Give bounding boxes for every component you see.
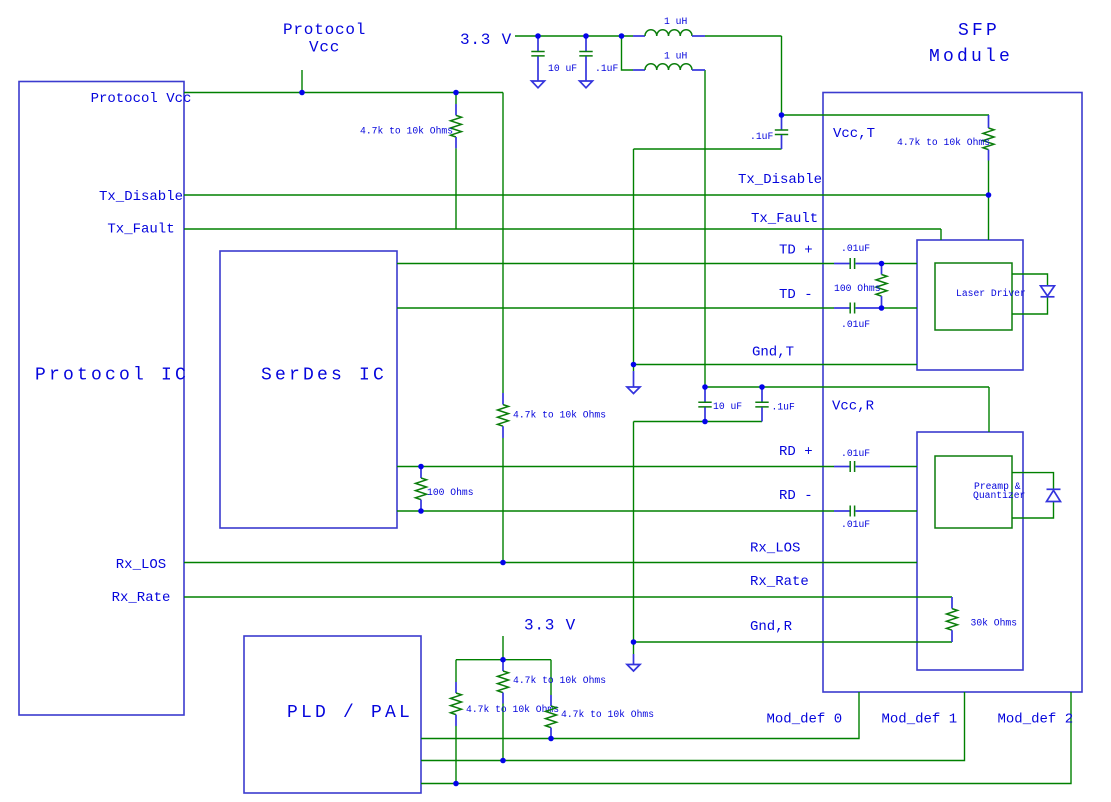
- capacitor .01uF (TD+ coupling): [834, 243, 890, 269]
- svg-text:Tx_Fault: Tx_Fault: [751, 211, 818, 227]
- SFP Module block: [823, 21, 1082, 692]
- wire Mod_def 1 net: [421, 692, 965, 761]
- capacitor .01uF (RD+ coupling): [834, 448, 890, 472]
- resistor 4.7k-10k (3.3V to Mod_def 2): [451, 682, 560, 726]
- wire ground rail upper (x=633.5): [633, 149, 635, 365]
- svg-text:.01uF: .01uF: [841, 519, 870, 530]
- wire TD- net right of cap: [890, 307, 917, 309]
- capacitor 10 uF (3.3V bulk bypass): [531, 36, 577, 81]
- svg-text:Mod_def 1: Mod_def 1: [882, 712, 958, 728]
- svg-text:Rx_Rate: Rx_Rate: [750, 574, 809, 590]
- wire Vcc,R net (y=387): [705, 386, 989, 388]
- wire Tx_Fault net (y=229): [184, 228, 941, 230]
- wire Vcc,T bypass return (y=149): [634, 148, 782, 150]
- node SFP module pin labels: [738, 126, 1073, 728]
- wire Protocol Vcc net (y=92.5): [184, 92, 503, 94]
- ground (under 10 uF): [532, 81, 545, 88]
- wire Tx_Fault entry to Laser Driver: [940, 229, 942, 240]
- resistor 4.7k-10k pull-up (Vcc,T to Tx_Disable): [897, 115, 994, 161]
- wire ground rail lower (x=633.5): [633, 422, 635, 643]
- wire Vcc,T net (y=115): [782, 114, 990, 116]
- svg-text:1 uH: 1 uH: [664, 16, 687, 27]
- inductor 1 uH (Vcc,T feed): [633, 16, 705, 36]
- wire mid pull-up rail lower to Mod_def 1 wire: [502, 704, 504, 761]
- svg-text:.1uF: .1uF: [595, 63, 618, 74]
- inductor 1 uH (Vcc,R feed): [633, 51, 705, 71]
- wire 3.3 V stub (bottom): [502, 636, 504, 660]
- capacitor 10 uF (Vcc,R bulk bypass): [698, 387, 742, 422]
- SerDes IC block: [220, 251, 397, 528]
- svg-text:SerDes IC: SerDes IC: [261, 366, 387, 386]
- capacitor .1uF (Vcc,R bypass): [755, 387, 795, 422]
- ground (under .1uF): [580, 81, 593, 88]
- diode laser diode: [1041, 286, 1055, 297]
- svg-text:4.7k to 10k Ohms: 4.7k to 10k Ohms: [466, 704, 559, 715]
- svg-text:.1uF: .1uF: [750, 131, 773, 142]
- wire Gnd,T net (y=364.5): [634, 364, 918, 366]
- svg-text:PLD / PAL: PLD / PAL: [287, 703, 413, 723]
- Preamp & Quantizer sub-block: [917, 432, 1025, 670]
- wire photodiode loop: [1012, 473, 1054, 518]
- capacitor .01uF (TD- coupling): [834, 303, 890, 331]
- wire Mod_def 2 net: [421, 692, 1071, 784]
- node junction dots: [299, 33, 991, 786]
- svg-text:Mod_def 2: Mod_def 2: [998, 712, 1074, 728]
- svg-text:10 uF: 10 uF: [548, 63, 577, 74]
- svg-text:RD +: RD +: [779, 444, 813, 460]
- wire lower inductor output to Vcc,R rail: [704, 70, 706, 387]
- svg-text:3.3 V: 3.3 V: [524, 617, 576, 635]
- PLD / PAL block: [244, 636, 421, 793]
- svg-text:TD -: TD -: [779, 287, 813, 303]
- wire left pull-up rail lower to Mod_def 2 wire: [455, 726, 457, 784]
- wire top inductor output down to Vcc,T: [781, 36, 783, 115]
- node Protocol IC pin labels: [91, 91, 192, 606]
- svg-text:4.7k to 10k Ohms: 4.7k to 10k Ohms: [513, 410, 606, 421]
- svg-text:4.7k to 10k Ohms: 4.7k to 10k Ohms: [360, 126, 453, 137]
- wire 3.3V rail (y=36): [515, 35, 633, 37]
- svg-text:Vcc,T: Vcc,T: [833, 126, 875, 142]
- resistor 4.7k-10k (3.3V to Mod_def 0): [546, 695, 655, 739]
- svg-text:Protocol Vcc: Protocol Vcc: [91, 91, 192, 107]
- svg-text:Quantizer: Quantizer: [973, 490, 1025, 501]
- svg-text:.01uF: .01uF: [841, 448, 870, 459]
- wire Vcc,T resistor lower segment into Laser Driver: [988, 161, 990, 241]
- svg-text:.01uF: .01uF: [841, 243, 870, 254]
- node Protocol Vcc label: [283, 21, 366, 57]
- wire RD+ net left of cap: [397, 466, 834, 468]
- capacitor .1uF (3.3V bypass): [579, 36, 618, 81]
- capacitor .01uF (RD- coupling): [834, 506, 890, 531]
- wire branch down to lower inductor: [622, 36, 634, 70]
- ground (Gnd,R rail): [627, 642, 640, 671]
- wire laser diode loop: [1012, 274, 1048, 314]
- capacitor .1uF (Vcc,T bypass): [750, 115, 788, 149]
- wire TD+ net right of cap: [890, 263, 917, 265]
- wire RD+ net right of cap: [890, 466, 917, 468]
- svg-text:Gnd,R: Gnd,R: [750, 619, 793, 635]
- svg-text:Laser Driver: Laser Driver: [956, 288, 1026, 299]
- svg-text:.01uF: .01uF: [841, 319, 870, 330]
- svg-text:.1uF: .1uF: [772, 402, 795, 413]
- svg-text:Tx_Fault: Tx_Fault: [107, 222, 174, 238]
- ground (Gnd,T rail): [627, 365, 640, 394]
- wire Rx_LOS net (y=562.5): [184, 562, 917, 564]
- svg-text:Rx_Rate: Rx_Rate: [112, 590, 171, 606]
- svg-text:Rx_LOS: Rx_LOS: [116, 557, 166, 573]
- svg-text:3.3 V: 3.3 V: [460, 31, 512, 49]
- wire TD+ net left of cap: [397, 263, 834, 265]
- wire right pull-up rail upper (x=551): [550, 660, 552, 695]
- wire left pull-up rail upper (x=456): [455, 660, 457, 682]
- svg-text:Module: Module: [929, 47, 1013, 67]
- svg-text:30k Ohms: 30k Ohms: [971, 618, 1018, 629]
- wire Gnd,R net (y=642): [634, 641, 953, 643]
- wire 3.3V to top inductor output segment: [705, 35, 782, 37]
- resistor 100 Ohms (RD termination): [416, 467, 474, 512]
- svg-text:10 uF: 10 uF: [713, 401, 742, 412]
- svg-text:100 Ohms: 100 Ohms: [427, 487, 474, 498]
- resistor 4.7k-10k (3.3V to Mod_def 1): [498, 660, 607, 704]
- wire RD- net left of cap: [397, 510, 834, 512]
- wire Protocol Vcc stub: [301, 70, 303, 93]
- svg-text:Mod_def 0: Mod_def 0: [767, 712, 843, 728]
- resistor 4.7k-10k pull-up (rail to Rx_LOS): [498, 393, 607, 438]
- resistor 4.7k-10k pull-up (Protocol Vcc to Tx_Fault): [360, 93, 462, 230]
- wire Vcc,R bypass return (y=421.5): [634, 421, 763, 423]
- Laser Driver sub-block: [917, 240, 1026, 370]
- svg-text:4.7k to 10k Ohms: 4.7k to 10k Ohms: [897, 137, 990, 148]
- svg-text:Tx_Disable: Tx_Disable: [738, 172, 822, 188]
- wire pull-up rail below resistor to Rx_LOS: [502, 438, 504, 563]
- svg-text:Protocol: Protocol: [283, 21, 366, 39]
- wire Mod_def 0 net: [421, 692, 859, 739]
- svg-text:Vcc: Vcc: [309, 39, 340, 57]
- svg-text:1 uH: 1 uH: [664, 51, 687, 62]
- svg-text:Tx_Disable: Tx_Disable: [99, 189, 183, 205]
- svg-text:RD -: RD -: [779, 488, 813, 504]
- svg-text:4.7k to 10k Ohms: 4.7k to 10k Ohms: [513, 675, 606, 686]
- wire 3.3V pull-up bus (y=659.7): [456, 659, 551, 661]
- wire Protocol Vcc pull-up rail (x=503): [502, 93, 504, 394]
- Protocol IC block: [19, 82, 189, 716]
- wire Tx_Disable net (y=195): [184, 194, 988, 196]
- wire Rx_Rate net (y=597): [184, 596, 952, 598]
- diode photodiode: [1047, 489, 1061, 501]
- svg-text:4.7k to 10k Ohms: 4.7k to 10k Ohms: [561, 709, 654, 720]
- svg-text:Vcc,R: Vcc,R: [832, 399, 875, 415]
- resistor 100 Ohms (TD termination): [834, 264, 887, 309]
- svg-text:SFP: SFP: [958, 21, 1000, 41]
- svg-text:100 Ohms: 100 Ohms: [834, 283, 881, 294]
- svg-text:Gnd,T: Gnd,T: [752, 345, 794, 361]
- svg-text:Protocol IC: Protocol IC: [35, 366, 189, 386]
- svg-text:Rx_LOS: Rx_LOS: [750, 541, 800, 557]
- svg-text:TD +: TD +: [779, 243, 813, 259]
- wire TD- net left of cap: [397, 307, 834, 309]
- wire RD- net right of cap: [890, 510, 917, 512]
- wire Vcc,R entry to Preamp: [988, 387, 990, 432]
- resistor 30k Ohms (Rx_Rate to Gnd,R): [947, 597, 1018, 642]
